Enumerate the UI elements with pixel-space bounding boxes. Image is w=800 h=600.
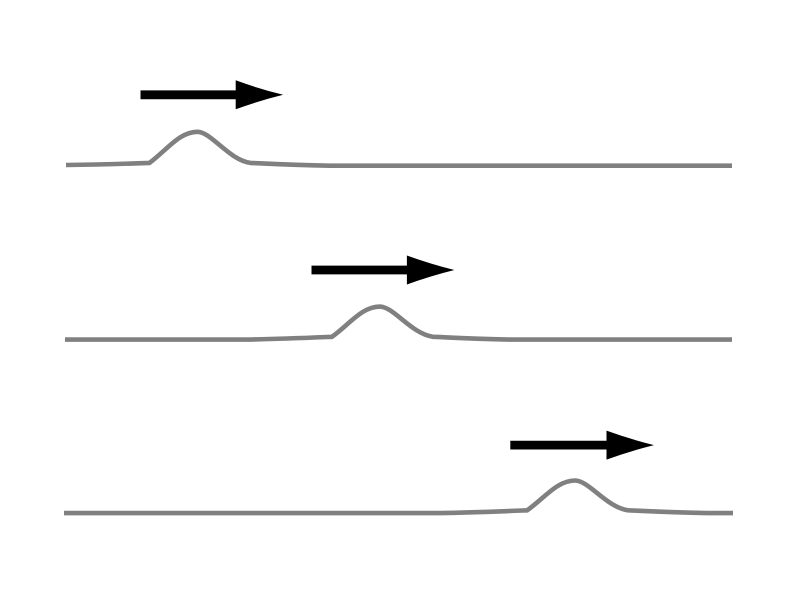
string 2 with pulse (65, 307, 732, 340)
string 3 with pulse (64, 481, 733, 514)
velocity arrow 1 (141, 80, 284, 109)
velocity arrow 2 (312, 256, 455, 285)
velocity arrow 3 (510, 431, 654, 460)
string 1 with pulse (66, 132, 732, 166)
